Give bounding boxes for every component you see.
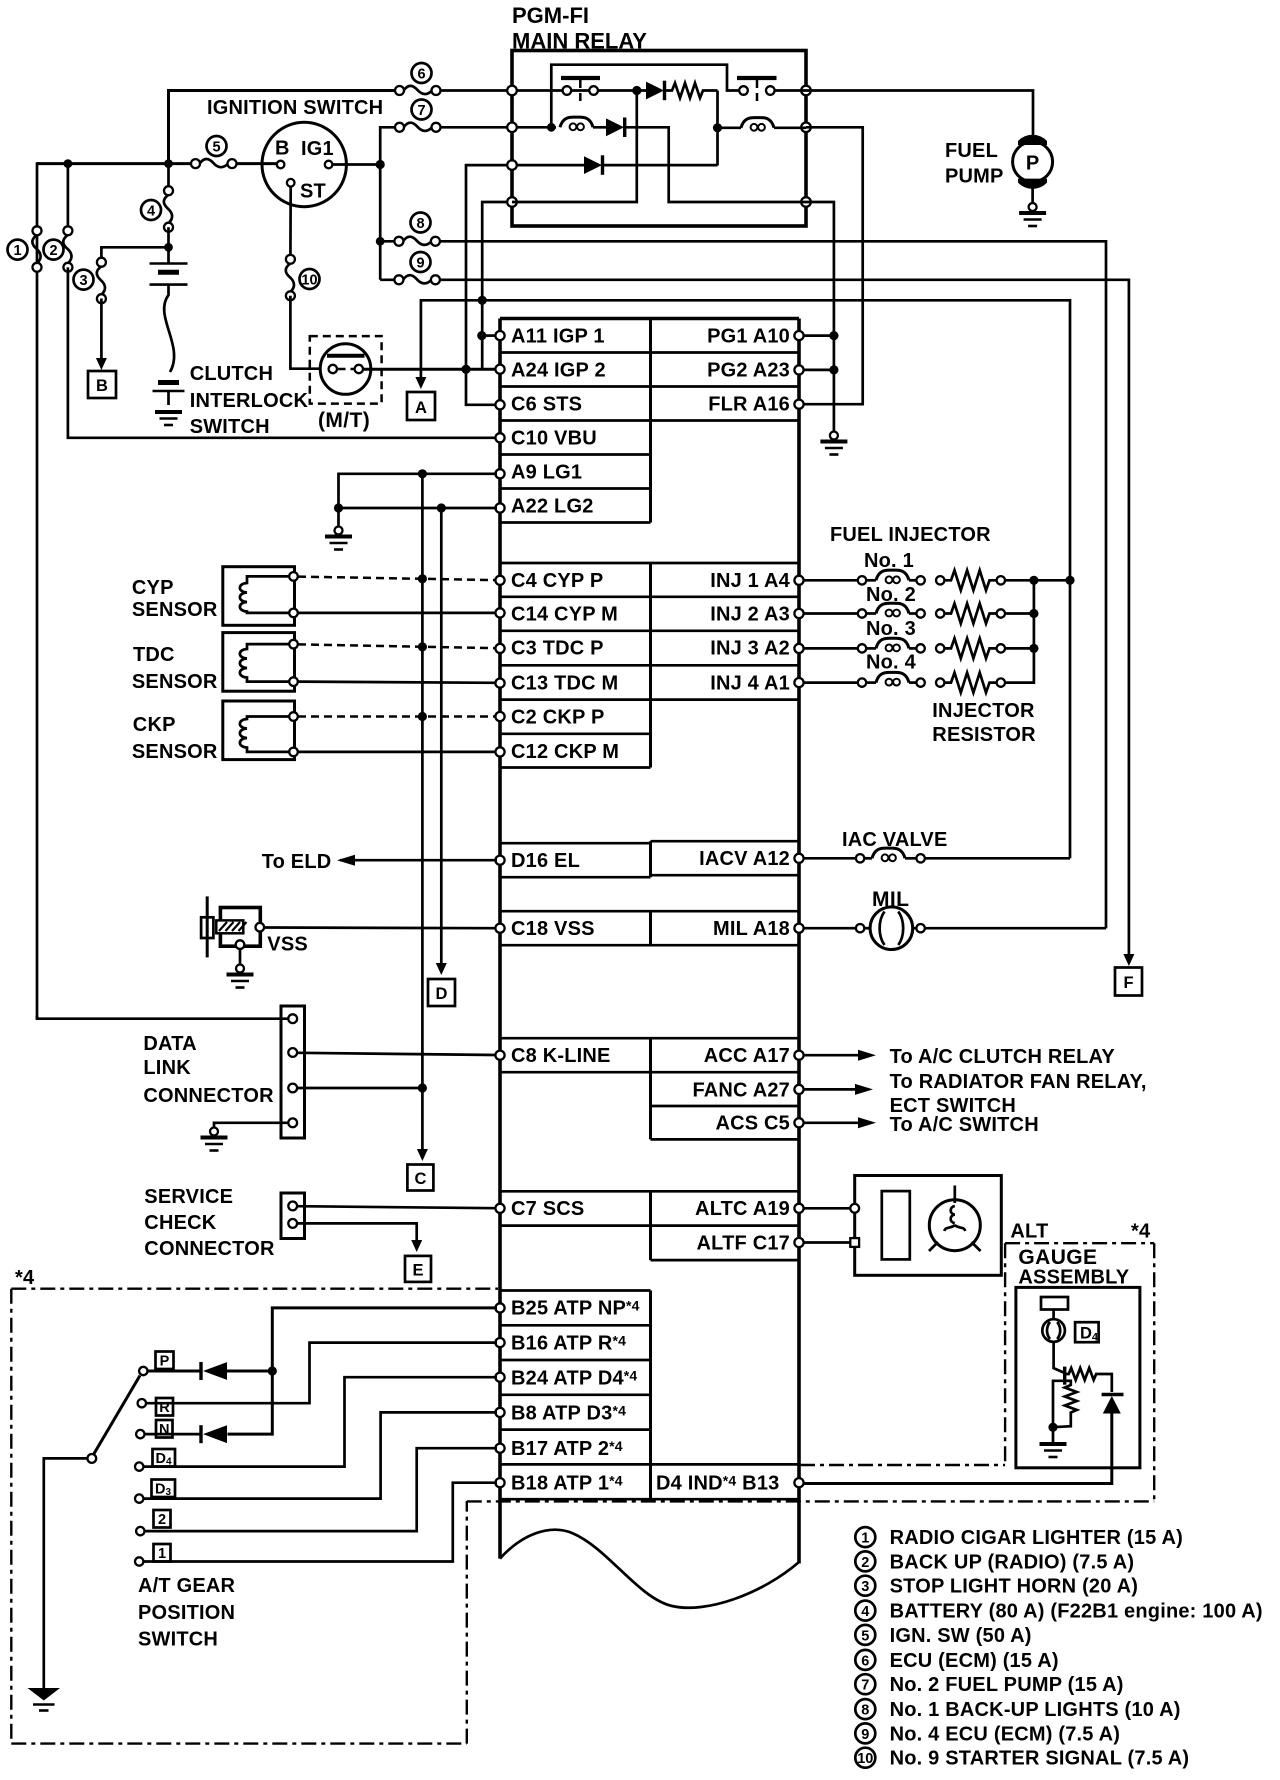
ECU pin INJ 3 A2: [794, 644, 803, 653]
svg-text:FANC A27: FANC A27: [692, 1080, 790, 1102]
svg-text:FUEL: FUEL: [945, 140, 998, 162]
ECU pin B24 ATP D4: [495, 1373, 504, 1382]
wire shield drain vertical (to connector C): [421, 474, 424, 1088]
fuse F3: [97, 258, 106, 304]
wire row2 left: [516, 126, 556, 129]
legend 1: [855, 1527, 875, 1547]
ECU pin C7 SCS: [495, 1204, 504, 1213]
svg-text:BACK UP (RADIO) (7.5 A): BACK UP (RADIO) (7.5 A): [890, 1551, 1135, 1573]
CYP pin P: [289, 572, 298, 581]
wire row1 junction drop to bottom rail: [512, 91, 637, 203]
legend 6: [855, 1650, 875, 1670]
wire LG2 vertical (to connector D): [440, 508, 443, 963]
svg-text:1: 1: [861, 1531, 869, 1547]
wire fuse3 to connector B arrow: [100, 299, 103, 359]
CKP sensor coil: [240, 717, 289, 752]
DLC pin 4: [288, 1118, 297, 1127]
gauge connector blade: [1041, 1297, 1068, 1310]
wire fuse10 to clutch interlock (M/T): [290, 296, 320, 369]
legend 7: [855, 1674, 875, 1694]
data link connector body: [281, 1006, 305, 1138]
wire relay row2 right to FLR: [803, 127, 863, 404]
label circled 5: [207, 136, 227, 156]
ECU pin C3 TDC P: [495, 644, 504, 653]
relay pin 3 left: [507, 160, 517, 170]
svg-text:ALTF C17: ALTF C17: [697, 1233, 790, 1255]
svg-text:CONNECTOR: CONNECTOR: [144, 1238, 275, 1260]
legend 8: [855, 1699, 875, 1719]
svg-text:5: 5: [861, 1628, 869, 1644]
wire shield drain to connector C: [421, 1088, 424, 1149]
terminal B: [277, 161, 285, 169]
legend 5: [855, 1625, 875, 1645]
svg-text:B25 ATP NP*4: B25 ATP NP*4: [511, 1298, 640, 1320]
alternator pin C: [850, 1204, 859, 1213]
svg-text:C14 CYP M: C14 CYP M: [511, 604, 618, 626]
gear label box D4: [153, 1449, 176, 1468]
wire diode3 to coil2 node: [603, 164, 718, 167]
relay coil 2: [718, 126, 742, 129]
svg-text:A22 LG2: A22 LG2: [511, 496, 594, 518]
wire fuse3 branch: [101, 247, 168, 262]
ECU cell rules C7 SCS / ALTC group: [500, 1190, 799, 1193]
label D4 box: [1075, 1322, 1099, 1343]
svg-text:SWITCH: SWITCH: [138, 1629, 218, 1651]
node junction A9 shield tap: [418, 469, 427, 478]
ECU pin B17 ATP 2: [495, 1444, 504, 1453]
svg-text:8: 8: [416, 216, 424, 232]
svg-text:4: 4: [147, 204, 155, 220]
wire fuse2 to C10 VBU: [68, 267, 497, 437]
label circled 1: [8, 240, 28, 260]
fuse F2: [63, 226, 72, 271]
ECU centre divider: [649, 319, 652, 1500]
node junction main relay out: [478, 296, 487, 305]
service check connector body: [281, 1193, 305, 1239]
dash-dot A/T boundary bottom: [11, 1742, 467, 1744]
gauge assembly box: [1016, 1287, 1140, 1467]
legend 2: [855, 1551, 875, 1571]
svg-text:C18 VSS: C18 VSS: [511, 918, 595, 940]
svg-text:PGM-FI: PGM-FI: [512, 3, 589, 28]
wire relay pin3 STS drop: [466, 165, 508, 405]
wire pivot to ground: [44, 1458, 88, 1688]
gear contact 1: [135, 1557, 143, 1565]
node junction battery top: [167, 227, 170, 263]
svg-text:C: C: [415, 1170, 427, 1188]
ground gauge: [1052, 1427, 1055, 1442]
svg-text:B16 ATP R*4: B16 ATP R*4: [511, 1333, 626, 1355]
wire TDC M: [298, 682, 496, 683]
label circled 10: [300, 269, 320, 289]
svg-text:IGN. SW (50 A): IGN. SW (50 A): [890, 1625, 1032, 1647]
D4 indicator lamp: [1042, 1319, 1065, 1342]
svg-text:4: 4: [861, 1604, 869, 1620]
wire blade to lamp: [1052, 1310, 1055, 1321]
wire contact2 to right pin: [775, 89, 807, 92]
relay contact 1: [561, 78, 600, 103]
svg-text:P: P: [160, 1354, 170, 1370]
svg-text:A9 LG1: A9 LG1: [511, 462, 582, 484]
svg-text:No. 2 FUEL PUMP (15 A): No. 2 FUEL PUMP (15 A): [890, 1674, 1124, 1696]
svg-text:INJECTOR: INJECTOR: [932, 700, 1035, 722]
wire to fuse9: [380, 278, 398, 281]
wire DLC pin4 to ground: [214, 1123, 288, 1128]
wire relay row1 to fuel pump: [806, 91, 1033, 141]
node junction PG1: [829, 331, 838, 340]
svg-text:ACS C5: ACS C5: [715, 1113, 790, 1135]
svg-text:CHECK: CHECK: [144, 1212, 216, 1234]
svg-text:PG1 A10: PG1 A10: [707, 326, 790, 348]
svg-text:C4 CYP P: C4 CYP P: [511, 570, 603, 592]
ignition switch body: [262, 122, 346, 206]
ECU pin MIL A18: [794, 924, 803, 933]
ECU pin ALTF C17: [794, 1238, 803, 1247]
legend 3: [855, 1576, 875, 1596]
node junction PG2: [829, 365, 838, 374]
dash-dot A/T boundary top: [11, 1287, 498, 1289]
svg-text:5: 5: [212, 140, 220, 156]
clutch interlock switch symbol: [320, 344, 371, 395]
diode D2 (contact row): [646, 81, 665, 101]
terminal ST: [287, 179, 295, 187]
svg-text:7: 7: [861, 1678, 869, 1694]
fuse F9: [394, 275, 440, 284]
svg-text:C13 TDC M: C13 TDC M: [511, 673, 618, 695]
wire relay out to injector feed (top right run): [482, 300, 1070, 858]
fuel pump motor: [1013, 135, 1053, 189]
svg-text:10: 10: [857, 1751, 873, 1767]
svg-text:2: 2: [49, 243, 57, 259]
fuse F1: [32, 226, 41, 271]
svg-text:SWITCH: SWITCH: [190, 416, 270, 438]
wire B18 ATP 1 to 1 contact: [144, 1483, 498, 1562]
wire fuse6 to relay pin1: [441, 89, 509, 92]
svg-text:6: 6: [417, 67, 425, 83]
svg-text:A24 IGP 2: A24 IGP 2: [511, 360, 606, 382]
ECU pin C12 CKP M: [495, 747, 504, 756]
wire DLC pin3 to shield drain: [297, 1087, 422, 1090]
resistor vertical: [1053, 1381, 1077, 1427]
svg-text:9: 9: [861, 1727, 869, 1743]
gear selector arm: [94, 1376, 141, 1455]
wire to A11 IGP1 pin: [482, 334, 497, 337]
TDC sensor coil: [240, 644, 289, 682]
svg-text:B: B: [96, 377, 108, 395]
gear pivot: [87, 1454, 96, 1463]
svg-text:To ELD: To ELD: [262, 851, 332, 873]
legend 4: [855, 1601, 875, 1621]
wire IG1 riser to fuse7: [380, 127, 399, 164]
node junction coil1: [547, 123, 556, 132]
wire ACS C5 arrow: [803, 1117, 876, 1128]
wire B25 ATP NP to P/N diodes: [228, 1308, 498, 1434]
node junction battery/fuse4 tap: [164, 159, 173, 168]
ECU pin C4 CYP P: [495, 576, 504, 585]
ECU pin A9 LG1: [495, 469, 504, 478]
svg-text:BATTERY (80 A) (F22B1 engine:: BATTERY (80 A) (F22B1 engine: 100 A): [890, 1601, 1263, 1623]
wire PG1 pin: [803, 334, 834, 337]
gear contact N: [136, 1430, 144, 1438]
dash-dot A/T boundary left: [10, 1289, 12, 1744]
svg-text:FLR A16: FLR A16: [708, 394, 790, 416]
ECU pin C14 CYP M: [495, 608, 504, 617]
wire FANC A27 arrow: [803, 1084, 873, 1095]
alternator box: [855, 1176, 1002, 1276]
svg-text:D: D: [436, 985, 448, 1003]
node junction row1: [632, 86, 641, 95]
wire lamp to driver bar: [1054, 1342, 1065, 1373]
svg-text:A11 IGP 1: A11 IGP 1: [511, 326, 605, 348]
ECU cell rules group1: [500, 353, 799, 523]
legend 10: [855, 1748, 875, 1768]
wire fuse2 drop: [67, 164, 70, 231]
ECU pin A24 IGP 2: [495, 365, 504, 374]
svg-text:C7 SCS: C7 SCS: [511, 1198, 584, 1220]
relay pin 1 right: [801, 86, 811, 96]
wire ST drop to fuse10: [289, 187, 292, 260]
svg-text:No. 9 STARTER SIGNAL (7.5 A): No. 9 STARTER SIGNAL (7.5 A): [890, 1748, 1190, 1770]
gear label box 2: [154, 1510, 171, 1528]
terminal IG1: [325, 161, 333, 169]
node junction shield/DLC: [418, 1083, 427, 1092]
relay pin 4 left: [507, 197, 517, 207]
wire B16 ATP R to R contact: [146, 1343, 497, 1404]
wire DLC pin2 to C8 K-LINE: [297, 1053, 496, 1055]
svg-text:SENSOR: SENSOR: [132, 671, 218, 693]
main relay box: [512, 51, 806, 227]
gauge assembly dash-dot boundary: [800, 1243, 1154, 1500]
node junction gauge ground: [1048, 1423, 1057, 1432]
connector B box: [88, 371, 116, 398]
ECU pin B18 ATP 1: [495, 1478, 504, 1487]
svg-text:*4: *4: [15, 1267, 35, 1289]
CYP sensor box: [223, 567, 295, 626]
wire VSS to C18: [264, 926, 496, 929]
ECU outline left edge: [498, 319, 502, 1559]
svg-text:RADIO CIGAR LIGHTER (15 A): RADIO CIGAR LIGHTER (15 A): [890, 1527, 1183, 1549]
wire PG2 pin: [803, 369, 834, 372]
node junction LG common: [334, 503, 343, 512]
connector C box: [407, 1165, 433, 1191]
svg-text:SERVICE: SERVICE: [144, 1186, 233, 1208]
ground VSS: [239, 949, 242, 965]
CYP pin M: [289, 609, 298, 618]
svg-text:PUMP: PUMP: [945, 166, 1004, 188]
svg-text:10: 10: [301, 273, 317, 289]
ECU pin FLR A16: [794, 400, 803, 409]
CKP sensor box: [223, 701, 295, 760]
ECU pin PG2 A23: [794, 365, 803, 374]
ground fuel pump: [1031, 184, 1034, 203]
wire CYP P shielded (dashed): [298, 577, 496, 581]
svg-text:C3 TDC P: C3 TDC P: [511, 638, 604, 660]
CKP pin P: [289, 712, 298, 721]
label circled 2: [44, 240, 64, 260]
gear label box R: [156, 1398, 173, 1416]
svg-text:3: 3: [79, 273, 87, 289]
wire IG1 to junction: [332, 163, 380, 166]
svg-text:To A/C SWITCH: To A/C SWITCH: [890, 1114, 1039, 1136]
svg-text:C12 CKP M: C12 CKP M: [511, 741, 619, 763]
gear label box P: [156, 1352, 174, 1370]
wire fuse8 to MIL feed (long right): [440, 241, 1106, 928]
relay contact 2: [737, 78, 777, 103]
svg-text:ST: ST: [300, 181, 326, 203]
ECU cell rules ATP group: [500, 1291, 799, 1500]
svg-text:To RADIATOR FAN RELAY,: To RADIATOR FAN RELAY,: [890, 1071, 1147, 1093]
ECU pin A22 LG2: [495, 503, 504, 512]
wire ACC A17 arrow: [803, 1050, 876, 1061]
svg-text:FUEL INJECTOR: FUEL INJECTOR: [830, 524, 991, 546]
driver bar: [1063, 1367, 1066, 1385]
svg-text:1: 1: [158, 1546, 166, 1562]
ground PG1/PG2: [820, 432, 847, 455]
svg-text:To A/C CLUTCH RELAY: To A/C CLUTCH RELAY: [890, 1046, 1116, 1068]
fuse F4: [167, 164, 170, 191]
resistor horizontal: [1065, 1368, 1112, 1392]
wire fuse5 to ignition B terminal: [232, 162, 277, 165]
svg-text:7: 7: [417, 103, 425, 119]
svg-text:No. 3: No. 3: [866, 618, 916, 640]
node junction A22 tap: [437, 503, 446, 512]
ECU pin A11 IGP 1: [495, 331, 504, 340]
gear contact P: [139, 1367, 147, 1375]
gear label box N: [156, 1420, 173, 1438]
ECU pin C18 VSS: [495, 924, 504, 933]
svg-text:ALT: ALT: [1010, 1221, 1048, 1243]
wire CKP P shielded (dashed): [298, 715, 496, 718]
MIL lamp: [803, 907, 1106, 950]
svg-text:INTERLOCK: INTERLOCK: [190, 390, 309, 412]
ECU pin C8 K-LINE: [495, 1051, 504, 1060]
gear contact D3: [135, 1494, 143, 1502]
dash-dot A/T boundary right: [466, 1501, 468, 1744]
svg-text:P: P: [1026, 153, 1040, 175]
clutch interlock switch (M/T) dashed box: [310, 336, 382, 404]
wire B17 ATP 2 to 2 contact: [145, 1448, 498, 1531]
diode N (cathode left): [144, 1425, 227, 1443]
node junction P diode: [268, 1366, 277, 1375]
svg-text:IGNITION SWITCH: IGNITION SWITCH: [207, 97, 383, 119]
wire ALTC to alternator: [803, 1207, 851, 1210]
svg-text:INJ 1 A4: INJ 1 A4: [710, 570, 790, 592]
TDC pin P: [289, 640, 298, 649]
svg-text:2: 2: [158, 1512, 166, 1528]
relay coil 1: [560, 117, 593, 130]
svg-text:IG1: IG1: [301, 138, 334, 160]
svg-text:3: 3: [861, 1579, 869, 1595]
wire To ELD arrow: [340, 859, 497, 862]
diode gauge (anode down): [1102, 1395, 1124, 1414]
fuse F10: [286, 255, 295, 301]
svg-text:STOP LIGHT HORN (20 A): STOP LIGHT HORN (20 A): [890, 1576, 1139, 1598]
SCC pin 1: [288, 1202, 297, 1211]
ECU cell rules sensor/injector group: [500, 563, 799, 768]
ground A/T switch: [28, 1688, 61, 1711]
diode D3 (STS row): [516, 164, 584, 167]
wire M/T to A24 IGP2 pin: [363, 368, 497, 371]
relay pin 1 left: [507, 86, 517, 96]
svg-text:D4 IND*4 B13: D4 IND*4 B13: [656, 1473, 779, 1495]
ECU pin ALTC A19: [794, 1204, 803, 1213]
svg-text:POSITION: POSITION: [138, 1602, 235, 1624]
svg-text:CKP: CKP: [133, 714, 176, 736]
svg-text:1: 1: [13, 243, 21, 259]
node junction inj rail 1: [1029, 576, 1038, 585]
wire B24 ATP D4 to D4 contact: [144, 1377, 498, 1466]
svg-text:RESISTOR: RESISTOR: [932, 724, 1036, 746]
wire TDC P shielded (dashed): [298, 644, 496, 648]
svg-text:DATA: DATA: [143, 1033, 196, 1055]
svg-text:D4: D4: [1080, 1325, 1099, 1344]
gear label box D3: [152, 1480, 176, 1499]
svg-text:MIL A18: MIL A18: [713, 918, 790, 940]
VSS symbol: [201, 896, 264, 957]
svg-text:CYP: CYP: [132, 577, 174, 599]
DLC pin 2: [288, 1048, 297, 1057]
dash-dot link to gauge area: [467, 1500, 1154, 1502]
CKP pin M: [289, 748, 298, 757]
ECU pin INJ 4 A1: [794, 678, 803, 687]
ECU cell rules K-LINE / ACC group: [500, 1037, 799, 1040]
wire relay row4 right to PG grounds: [806, 202, 834, 431]
svg-text:D16 EL: D16 EL: [511, 850, 580, 872]
node junction STS vertical crossing M/T wire: [461, 365, 470, 374]
ECU pin C2 CKP P: [495, 712, 504, 721]
svg-text:2: 2: [861, 1555, 869, 1571]
wire fuse1 drop (left vertical top): [37, 164, 40, 1020]
ECU pin ACS C5: [794, 1118, 803, 1127]
svg-text:IACV A12: IACV A12: [699, 848, 790, 870]
svg-text:ASSEMBLY: ASSEMBLY: [1018, 1267, 1129, 1289]
svg-text:No. 1 BACK-UP LIGHTS (10 A): No. 1 BACK-UP LIGHTS (10 A): [890, 1699, 1181, 1721]
ground battery: [155, 412, 182, 425]
ECU cell rules D16 EL / IACV: [500, 842, 651, 845]
ECU top edge: [500, 317, 799, 321]
ECU pin INJ 1 A4: [794, 576, 803, 585]
svg-text:(M/T): (M/T): [318, 409, 370, 432]
alternator stator: [929, 1186, 981, 1252]
ECU pin PG1 A10: [794, 331, 803, 340]
ECU pin IACV A12: [794, 854, 803, 863]
fuse F5: [191, 159, 237, 168]
svg-text:C6 STS: C6 STS: [511, 394, 582, 416]
svg-text:F: F: [1123, 974, 1133, 992]
alternator regulator: [882, 1191, 910, 1259]
svg-text:CONNECTOR: CONNECTOR: [143, 1085, 274, 1107]
fuse F8: [394, 237, 440, 246]
relay inner top link: [551, 65, 739, 125]
legend 9: [855, 1723, 875, 1743]
resistor R1: [665, 83, 718, 98]
wire SCC pin2 to connector E: [297, 1223, 417, 1240]
ground DLC: [201, 1128, 228, 1151]
DLC pin 1: [288, 1014, 297, 1023]
svg-text:9: 9: [416, 256, 424, 272]
wire ALTF to alternator: [803, 1241, 851, 1244]
battery: [150, 264, 188, 406]
ECU pin C6 STS: [495, 400, 504, 409]
svg-text:D3: D3: [155, 1482, 171, 1499]
ECU pin FANC A27: [794, 1085, 803, 1094]
svg-text:INJ 4 A1: INJ 4 A1: [710, 673, 790, 695]
connector F box: [1115, 968, 1142, 996]
svg-text:8: 8: [861, 1703, 869, 1719]
ECU pin D16 EL: [495, 856, 504, 865]
alternator pin F: [850, 1238, 859, 1247]
relay pin 4 right: [801, 197, 811, 207]
